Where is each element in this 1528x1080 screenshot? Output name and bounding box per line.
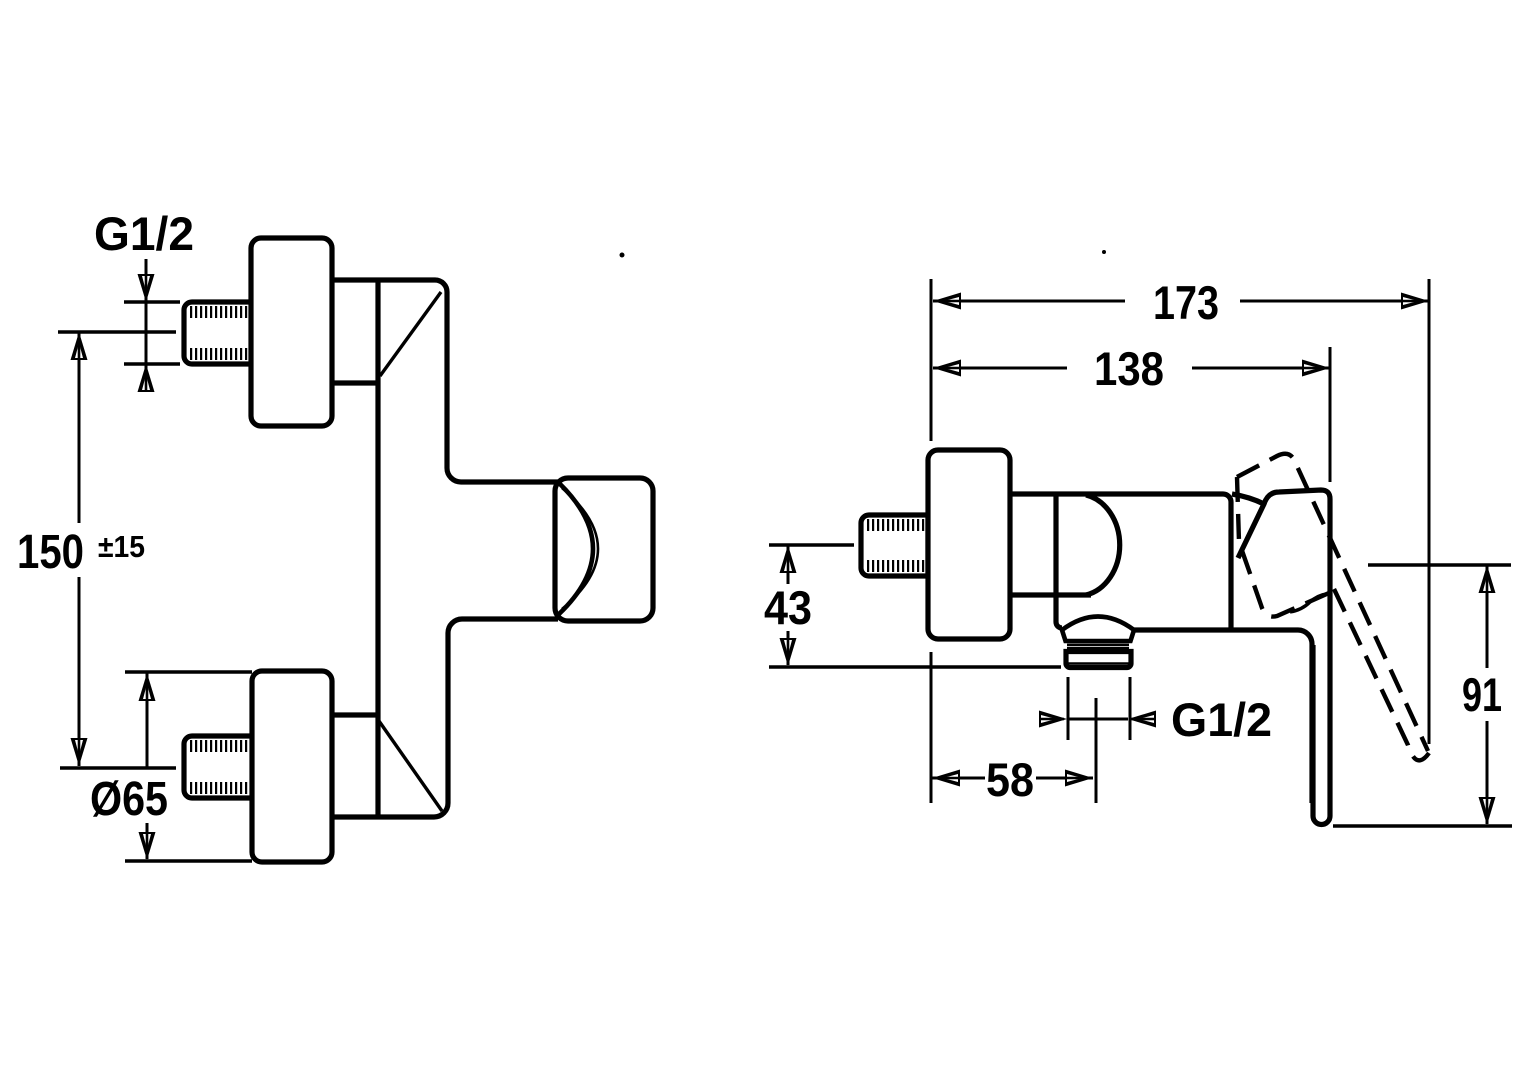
front view: upper union rect bottom edge xyxy=(332,380,378,385)
dim thread: ticks xyxy=(124,300,180,304)
dim 58 line xyxy=(932,777,985,780)
front view: lower wall flange xyxy=(252,671,332,862)
front view: upper wall flange xyxy=(251,238,332,426)
svg-text:138: 138 xyxy=(1094,342,1164,395)
front view: lower inlet thread G1/2 xyxy=(184,736,254,798)
side view: handle base solid xyxy=(1232,494,1264,504)
dim 43 line xyxy=(787,545,790,584)
dim 173 line xyxy=(933,300,1125,303)
front view: lower union diagonal xyxy=(379,721,442,811)
svg-text:Ø65: Ø65 xyxy=(90,773,168,826)
side view: outlet nipple xyxy=(1066,652,1131,668)
side view: handle dashed rotated base xyxy=(1237,477,1329,617)
dim G1/2 outlet line + arrows xyxy=(1067,718,1128,721)
dim G1/2 outlet ticks xyxy=(1067,677,1070,740)
svg-text:150: 150 xyxy=(17,526,84,579)
dim O65: vertical line xyxy=(146,673,149,769)
svg-text:58: 58 xyxy=(986,753,1034,806)
dim 58 right extension (outlet centerline) xyxy=(1095,698,1098,803)
side view: cartridge boundary vertical xyxy=(1056,494,1062,628)
front view: handle face arcs xyxy=(559,483,593,614)
side view: body bottom left edge xyxy=(1010,592,1091,597)
dim thread: vertical line xyxy=(145,259,148,391)
dim 91 ref top xyxy=(1368,563,1511,567)
side view: inlet thread xyxy=(861,515,928,576)
svg-text:91: 91 xyxy=(1462,668,1502,721)
speck dots xyxy=(620,253,625,258)
side view: handle base bottom curve xyxy=(1290,594,1327,612)
front view: upper union diagonal xyxy=(380,292,441,376)
dim 150: vertical line xyxy=(78,332,81,523)
svg-text:173: 173 xyxy=(1153,276,1219,329)
svg-text:G1/2: G1/2 xyxy=(1171,693,1272,746)
svg-text:43: 43 xyxy=(764,581,812,634)
svg-text:±15: ±15 xyxy=(98,529,145,564)
dim 91 line xyxy=(1486,565,1489,668)
front view: body left edge xyxy=(375,280,380,817)
side view: body outline top xyxy=(1010,494,1231,630)
dim 138 right extension xyxy=(1329,347,1332,482)
dim 43 ref bottom xyxy=(769,665,1061,669)
dim 43 ref top xyxy=(769,543,854,547)
front view: body outline xyxy=(332,280,558,482)
front view: handle knob xyxy=(555,478,653,621)
svg-text:G1/2: G1/2 xyxy=(94,207,194,260)
side view: wall flange xyxy=(928,450,1010,639)
side view: outlet ring xyxy=(1067,645,1129,648)
side view: lever solid xyxy=(1313,630,1330,825)
dim O65: tick top xyxy=(125,670,252,674)
dim 138 line xyxy=(933,367,1067,370)
dim 91 ref bottom xyxy=(1333,824,1512,828)
dim O65: tick bottom xyxy=(125,859,252,863)
dim 173/138 left extension xyxy=(930,279,933,441)
front view: upper inlet thread G1/2 xyxy=(184,302,254,364)
dim 58 left extension xyxy=(930,652,933,803)
dim 173 right extension xyxy=(1428,279,1431,744)
dim 150: reference line top (pipe centerline) xyxy=(58,330,176,334)
side view: cartridge dome arc xyxy=(1086,495,1120,595)
side view: outlet dome cap xyxy=(1062,617,1134,642)
dim 150: reference line bottom xyxy=(60,766,176,770)
front view: lower union rect top edge xyxy=(332,712,378,717)
side view: body bottom right edge to lever xyxy=(1134,630,1312,803)
side view: dashed lever xyxy=(1334,589,1429,760)
